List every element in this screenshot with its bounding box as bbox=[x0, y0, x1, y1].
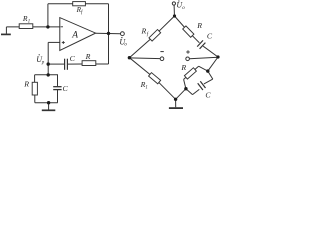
svg-text:C: C bbox=[207, 31, 213, 40]
svg-text:1: 1 bbox=[145, 85, 147, 90]
svg-text:1: 1 bbox=[28, 20, 30, 25]
svg-text:f: f bbox=[81, 11, 83, 16]
svg-text:o: o bbox=[182, 6, 185, 11]
svg-text:p: p bbox=[41, 60, 45, 65]
svg-text:R: R bbox=[23, 80, 29, 89]
svg-text:o: o bbox=[124, 42, 127, 47]
svg-text:R: R bbox=[141, 27, 147, 36]
svg-text:R: R bbox=[196, 21, 202, 30]
svg-text:R: R bbox=[85, 52, 91, 61]
svg-text:R: R bbox=[180, 63, 186, 72]
svg-text:C: C bbox=[63, 84, 69, 93]
svg-text:A: A bbox=[71, 31, 78, 41]
svg-text:C: C bbox=[205, 90, 211, 99]
svg-text:C: C bbox=[70, 54, 76, 63]
svg-text:f: f bbox=[147, 33, 149, 38]
